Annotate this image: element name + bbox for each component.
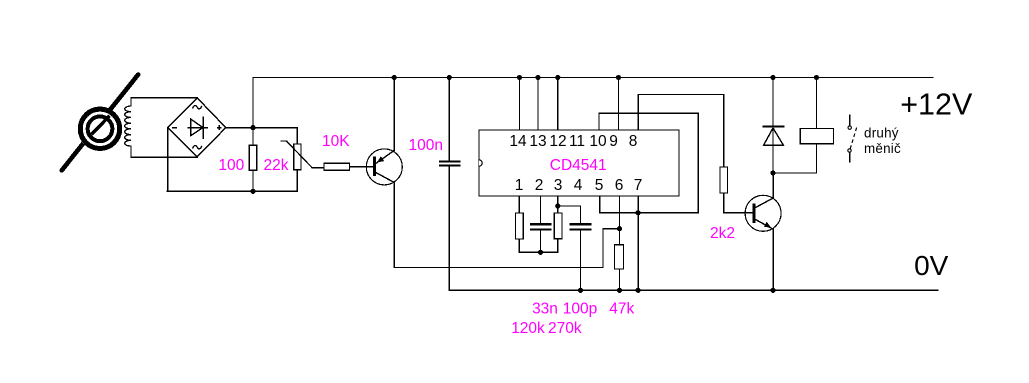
- svg-text:měnič: měnič: [864, 141, 901, 156]
- svg-text:270k: 270k: [548, 320, 582, 337]
- svg-text:100p: 100p: [563, 300, 597, 317]
- svg-text:14: 14: [509, 133, 527, 150]
- svg-text:10: 10: [589, 133, 607, 150]
- svg-text:33n: 33n: [532, 300, 558, 317]
- svg-text:11: 11: [569, 133, 585, 150]
- svg-text:0V: 0V: [914, 250, 949, 281]
- svg-text:22k: 22k: [264, 157, 289, 174]
- svg-text:100: 100: [218, 157, 244, 174]
- svg-text:5: 5: [595, 177, 604, 194]
- svg-text:9: 9: [609, 133, 618, 150]
- svg-text:druhý: druhý: [864, 126, 899, 141]
- svg-text:100n: 100n: [408, 137, 442, 154]
- svg-text:10K: 10K: [322, 133, 350, 150]
- svg-text:6: 6: [615, 177, 624, 194]
- svg-text:4: 4: [574, 177, 583, 194]
- svg-text:47k: 47k: [609, 300, 634, 317]
- svg-text:CD4541: CD4541: [550, 157, 607, 174]
- svg-text:3: 3: [554, 177, 563, 194]
- svg-text:1: 1: [515, 177, 524, 194]
- svg-text:2k2: 2k2: [710, 225, 735, 242]
- svg-text:7: 7: [634, 177, 643, 194]
- svg-text:8: 8: [629, 133, 638, 150]
- svg-text:120k: 120k: [511, 320, 545, 337]
- svg-text:+12V: +12V: [900, 87, 973, 121]
- svg-text:12: 12: [549, 133, 566, 150]
- svg-text:2: 2: [535, 177, 544, 194]
- svg-text:13: 13: [529, 133, 546, 150]
